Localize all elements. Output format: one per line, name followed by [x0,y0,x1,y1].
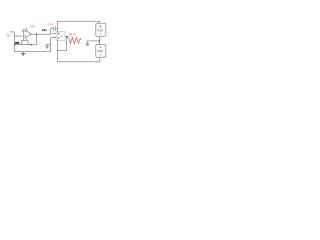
svg-text:RP1H: RP1H [69,32,76,36]
svg-text:PWR2: PWR2 [97,49,104,53]
svg-text:470k: 470k [30,24,36,28]
svg-text:PWR1: PWR1 [97,29,104,33]
svg-text:47uF: 47uF [47,23,53,27]
